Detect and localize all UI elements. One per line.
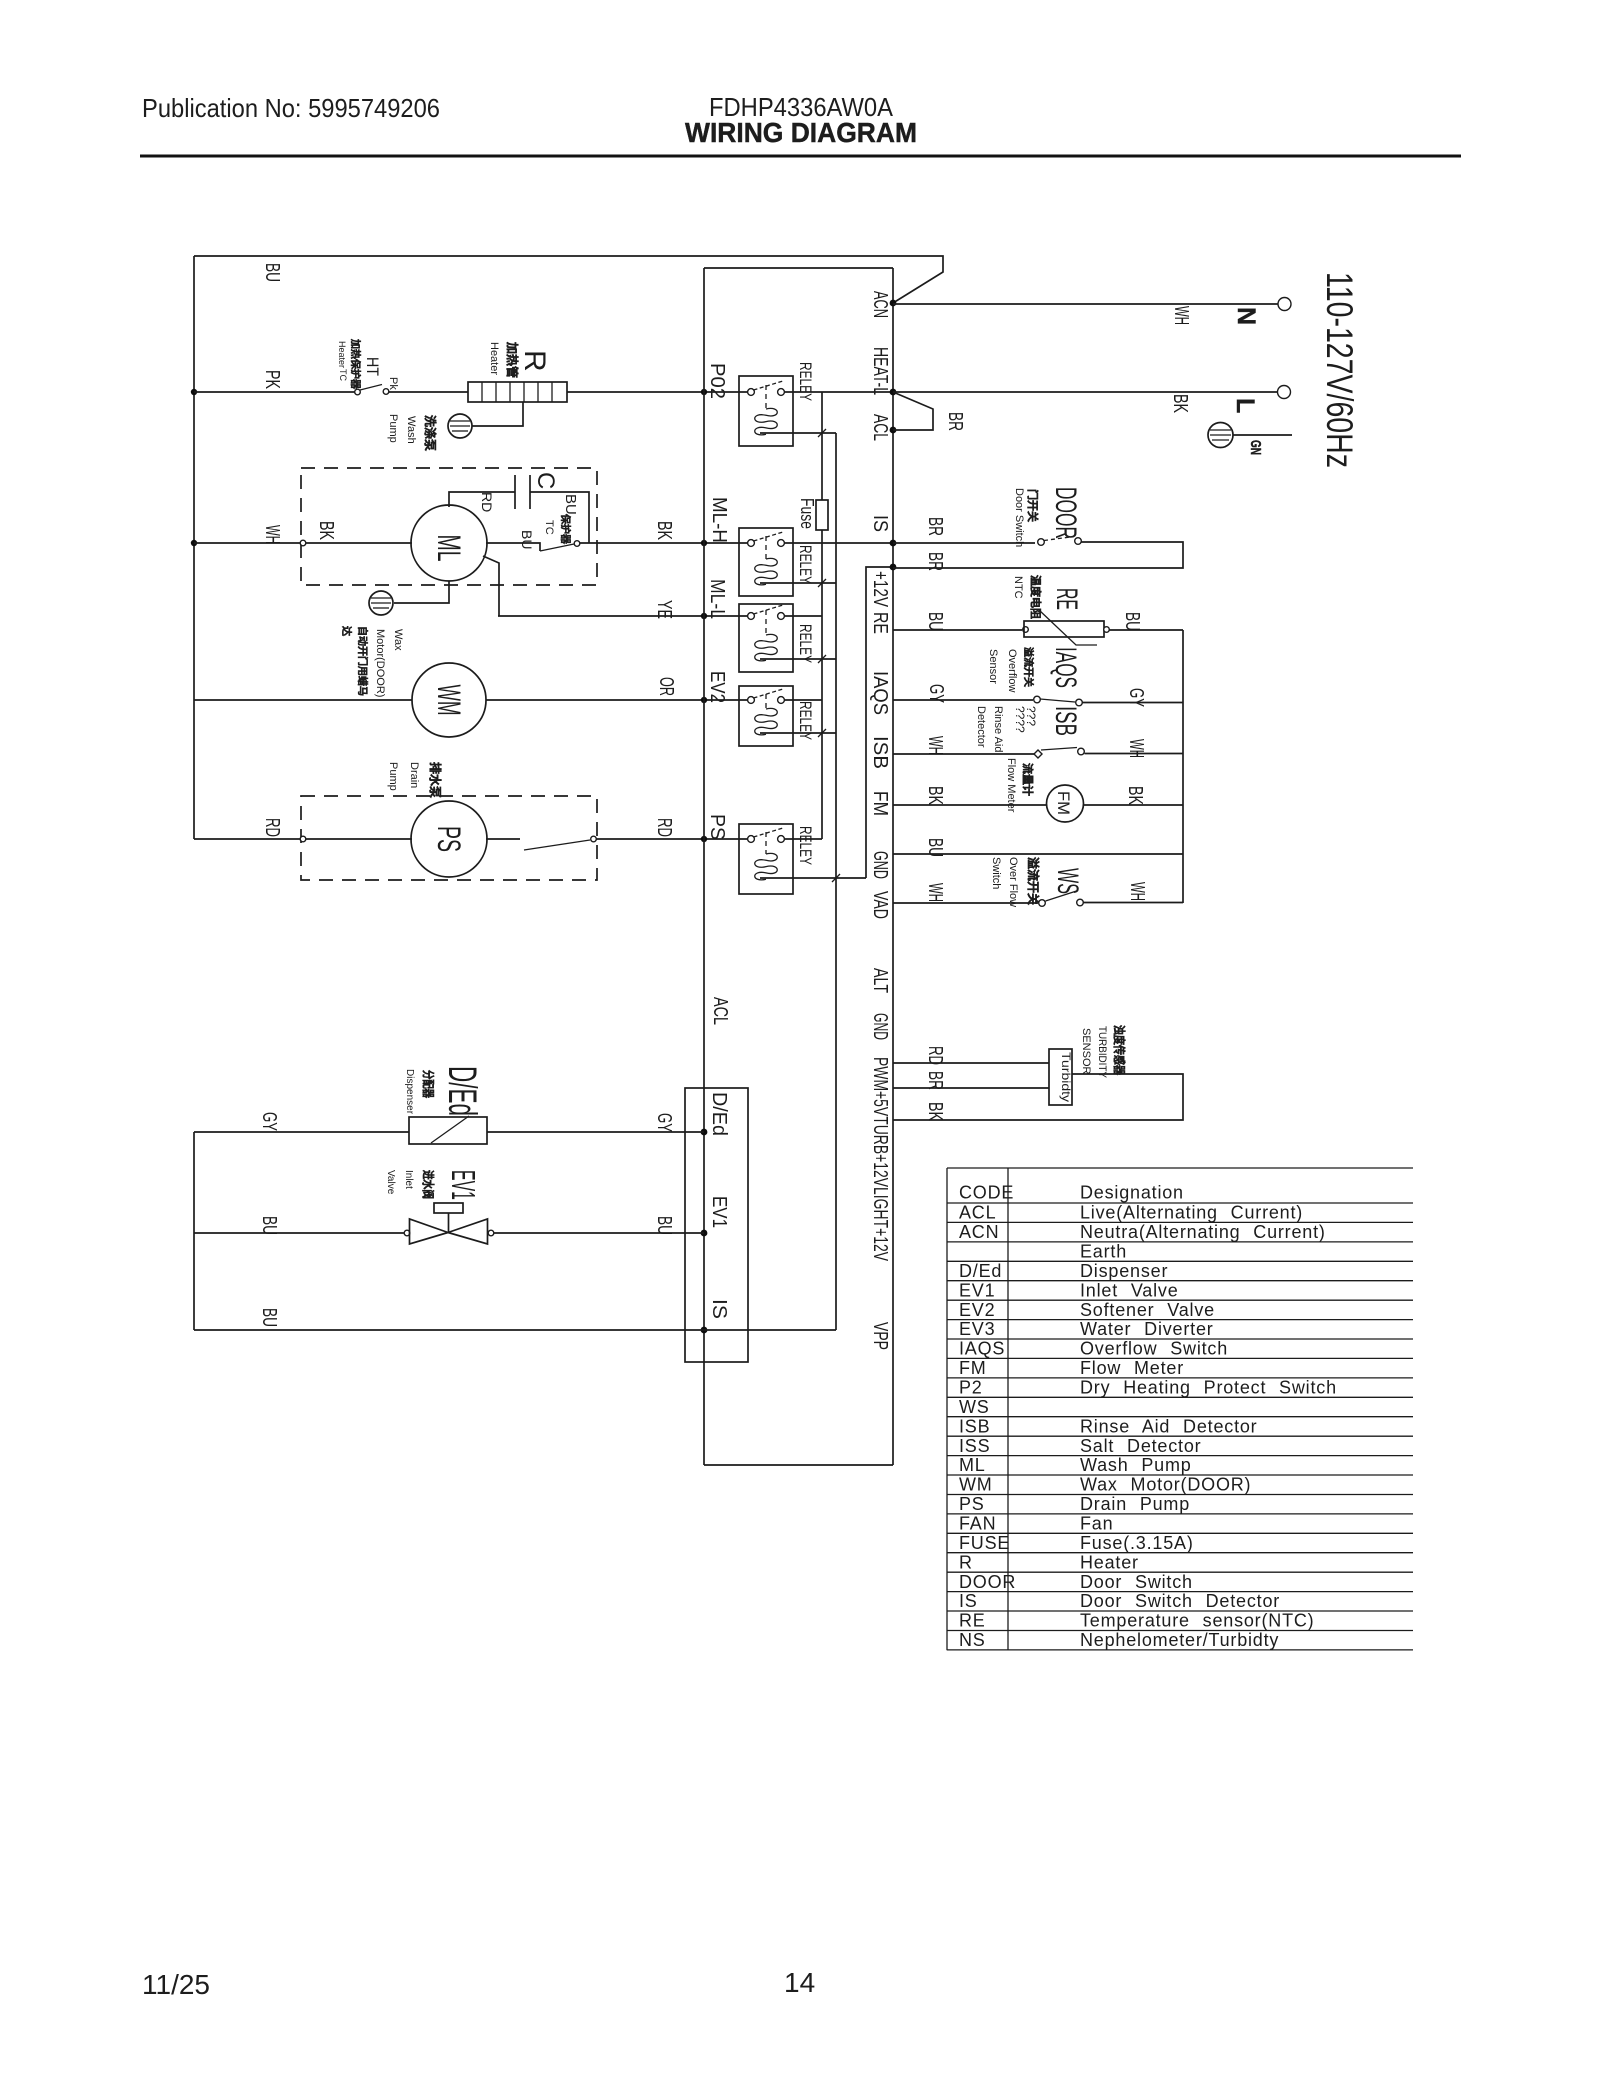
wire WS left xyxy=(893,902,1038,904)
svg-text:ML-L: ML-L xyxy=(706,579,728,619)
svg-text:L: L xyxy=(1231,398,1259,413)
wire IS bottom xyxy=(194,1329,836,1331)
svg-text:P02: P02 xyxy=(706,363,728,399)
svg-text:GND: GND xyxy=(869,1013,891,1040)
svg-text:RELEY: RELEY xyxy=(796,362,815,401)
node PS box entry xyxy=(300,836,306,842)
header rule xyxy=(140,155,1461,158)
valve EV1 xyxy=(404,1230,410,1236)
svg-text:WH: WH xyxy=(1126,882,1148,901)
svg-text:WH: WH xyxy=(1125,739,1147,758)
connector main line xyxy=(892,268,894,1465)
svg-text:BR: BR xyxy=(924,1071,946,1090)
svg-text:Door Switch Detector: Door Switch Detector xyxy=(1080,1591,1280,1611)
node P02 xyxy=(701,389,707,395)
svg-text:BU: BU xyxy=(519,530,535,549)
svg-text:Designation: Designation xyxy=(1080,1183,1184,1203)
svg-text:进水阀: 进水阀 xyxy=(421,1170,436,1199)
svg-text:ISS: ISS xyxy=(959,1436,990,1456)
svg-text:Drain: Drain xyxy=(408,762,420,788)
svg-text:BK: BK xyxy=(1169,394,1191,413)
svg-text:Heater: Heater xyxy=(337,341,347,368)
svg-text:Dispenser: Dispenser xyxy=(404,1069,415,1115)
capacitor C riser xyxy=(449,492,515,507)
node D/Ed xyxy=(701,1129,708,1136)
svg-text:GND: GND xyxy=(869,851,891,879)
svg-text:D/Ed: D/Ed xyxy=(959,1261,1002,1281)
wire YE ML-L xyxy=(498,615,750,617)
svg-text:洗涤泵: 洗涤泵 xyxy=(423,415,438,451)
dispenser D/Ed xyxy=(409,1117,487,1144)
wire IAQS left xyxy=(893,699,1033,701)
svg-text:Heater: Heater xyxy=(1080,1552,1139,1572)
node BR2 xyxy=(890,564,897,571)
switch PS thermal xyxy=(486,838,520,840)
node ML box entry xyxy=(300,540,306,546)
svg-text:BK: BK xyxy=(315,521,337,540)
svg-text:SENSOR: SENSOR xyxy=(1080,1028,1092,1075)
node ML-L xyxy=(701,613,707,619)
svg-text:WIRING DIAGRAM: WIRING DIAGRAM xyxy=(685,117,917,148)
svg-text:EV2: EV2 xyxy=(959,1300,995,1320)
svg-text:GY: GY xyxy=(925,684,947,703)
svg-text:Pk: Pk xyxy=(387,377,399,390)
svg-text:Drain Pump: Drain Pump xyxy=(1080,1494,1190,1514)
svg-text:RD: RD xyxy=(924,1046,946,1065)
svg-text:BU: BU xyxy=(924,838,946,857)
wire RD turbidity xyxy=(893,1062,1049,1064)
svg-text:ML: ML xyxy=(431,535,467,562)
svg-text:HEAT-L: HEAT-L xyxy=(869,347,891,395)
svg-text:Pump: Pump xyxy=(387,762,399,791)
svg-text:TC: TC xyxy=(338,369,348,381)
fuse F1 xyxy=(816,500,828,530)
svg-text:BK: BK xyxy=(924,1102,946,1121)
svg-text:BR: BR xyxy=(924,552,946,571)
svg-text:FAN: FAN xyxy=(959,1514,996,1534)
wire PK xyxy=(194,391,355,393)
wire RE left xyxy=(893,629,1022,631)
svg-text:+12V: +12V xyxy=(869,571,891,608)
svg-text:Valve: Valve xyxy=(385,1170,396,1195)
svg-text:Wax: Wax xyxy=(392,629,404,651)
svg-text:YE: YE xyxy=(653,600,675,619)
svg-text:RD: RD xyxy=(653,818,675,837)
svg-text:门开关: 门开关 xyxy=(1026,489,1040,522)
svg-text:Live(Alternating Current): Live(Alternating Current) xyxy=(1080,1203,1303,1223)
svg-text:NS: NS xyxy=(959,1630,986,1650)
switch WS xyxy=(1039,900,1046,907)
svg-text:TC: TC xyxy=(543,520,555,535)
svg-text:Turbidty: Turbidty xyxy=(1059,1052,1073,1102)
svg-text:RD: RD xyxy=(261,818,283,837)
node IS2 xyxy=(701,1327,708,1334)
svg-text:Over Flow: Over Flow xyxy=(1007,857,1019,907)
table CODE/Designation xyxy=(947,1168,1413,1650)
svg-text:RE: RE xyxy=(1050,588,1083,610)
svg-text:达: 达 xyxy=(340,626,353,636)
svg-text:D/Ed: D/Ed xyxy=(708,1092,730,1136)
svg-text:Heater: Heater xyxy=(488,342,500,375)
svg-text:Rinse Aid: Rinse Aid xyxy=(992,706,1004,752)
board outline xyxy=(704,268,893,1465)
svg-text:VPP: VPP xyxy=(869,1322,891,1350)
turbidity sensor box xyxy=(1049,1049,1072,1105)
svg-text:EV1: EV1 xyxy=(959,1280,995,1300)
wire relay3 out xyxy=(784,615,822,617)
node PK-left xyxy=(191,389,197,395)
switch TC in ML box xyxy=(486,543,540,551)
resistor R heater xyxy=(468,382,567,402)
relay K5 xyxy=(739,824,793,894)
svg-text:加热保护器: 加热保护器 xyxy=(349,338,362,390)
svg-text:Fan: Fan xyxy=(1080,1514,1113,1534)
svg-text:TURBIDITY: TURBIDITY xyxy=(1096,1026,1108,1079)
svg-text:WH: WH xyxy=(1170,306,1192,325)
wire BR turbidity xyxy=(893,1087,1049,1089)
svg-text:Inlet: Inlet xyxy=(403,1170,414,1189)
svg-text:PS: PS xyxy=(431,826,467,852)
svg-text:BK: BK xyxy=(924,786,946,805)
svg-text:RE: RE xyxy=(959,1611,986,1631)
node HEAT-L xyxy=(890,389,897,396)
svg-text:CODE: CODE xyxy=(959,1183,1014,1203)
connector D/Ed box xyxy=(685,1088,748,1362)
svg-text:FM: FM xyxy=(1054,791,1073,815)
terminal N xyxy=(1278,298,1291,311)
svg-text:IAQS: IAQS xyxy=(1049,647,1082,688)
svg-text:R: R xyxy=(959,1552,973,1572)
wire GY dispenser xyxy=(194,1131,409,1133)
svg-text:RE: RE xyxy=(869,612,891,634)
wire relay2 out xyxy=(784,542,893,544)
node ACL xyxy=(890,427,897,434)
wire coil K1 xyxy=(760,432,836,434)
dashed box ML xyxy=(301,468,597,585)
svg-text:GY: GY xyxy=(258,1112,280,1131)
svg-text:Salt Detector: Salt Detector xyxy=(1080,1436,1201,1456)
wire BR jog xyxy=(893,392,933,430)
svg-text:ISB: ISB xyxy=(959,1416,990,1436)
svg-text:BK: BK xyxy=(653,521,675,540)
svg-text:BU: BU xyxy=(653,1216,675,1235)
svg-text:VAD: VAD xyxy=(869,891,891,919)
svg-text:Temperature sensor(NTC): Temperature sensor(NTC) xyxy=(1080,1611,1314,1631)
flow meter FM xyxy=(1047,785,1084,822)
node EV1 xyxy=(701,1230,708,1237)
svg-text:BR: BR xyxy=(924,517,946,536)
terminal L xyxy=(1278,386,1291,399)
svg-text:FUSE: FUSE xyxy=(959,1533,1010,1553)
wire heater tap to ground xyxy=(472,402,523,426)
wire BU EV1 xyxy=(194,1232,407,1234)
svg-text:DOOR: DOOR xyxy=(959,1572,1016,1592)
svg-text:WS: WS xyxy=(1051,868,1084,894)
svg-text:EV2: EV2 xyxy=(706,671,728,703)
node ACN xyxy=(890,300,897,307)
svg-text:R: R xyxy=(518,350,551,372)
svg-text:EV1: EV1 xyxy=(445,1170,482,1200)
svg-text:BU: BU xyxy=(562,494,579,515)
svg-text:14: 14 xyxy=(784,1967,815,1998)
svg-text:BU: BU xyxy=(261,263,283,282)
ground ML motor xyxy=(394,581,449,603)
svg-text:Overflow Switch: Overflow Switch xyxy=(1080,1339,1228,1359)
svg-text:PS: PS xyxy=(959,1494,985,1514)
svg-text:Pump: Pump xyxy=(387,414,399,443)
node ML-H xyxy=(701,540,707,546)
switch HT xyxy=(355,389,361,395)
svg-text:Rinse Aid Detector: Rinse Aid Detector xyxy=(1080,1416,1257,1436)
svg-text:ACL: ACL xyxy=(869,414,891,441)
motor ML xyxy=(411,505,487,581)
svg-text:ACL: ACL xyxy=(959,1203,996,1223)
svg-text:Flow Meter: Flow Meter xyxy=(1080,1358,1184,1378)
svg-text:BU: BU xyxy=(1121,612,1143,631)
svg-text:IS: IS xyxy=(959,1591,978,1611)
svg-text:D/Ed: D/Ed xyxy=(440,1066,484,1116)
node PS pin xyxy=(701,836,707,842)
svg-text:RELEY: RELEY xyxy=(796,624,815,663)
wire BR1 door xyxy=(893,542,1035,544)
svg-text:Sensor: Sensor xyxy=(987,649,999,684)
svg-text:Flow Meter: Flow Meter xyxy=(1005,758,1017,813)
svg-text:FM: FM xyxy=(869,791,891,816)
svg-text:PS: PS xyxy=(706,814,728,840)
node WH-left xyxy=(191,540,197,546)
svg-text:P2: P2 xyxy=(959,1378,983,1398)
svg-text:Neutra(Alternating Current): Neutra(Alternating Current) xyxy=(1080,1222,1326,1242)
svg-text:Dispenser: Dispenser xyxy=(1080,1261,1168,1281)
svg-text:WH: WH xyxy=(924,883,946,902)
svg-text:HT: HT xyxy=(363,357,382,376)
wire BK turbidity xyxy=(893,1074,1183,1120)
svg-text:ACL: ACL xyxy=(709,997,731,1025)
svg-text:EV1: EV1 xyxy=(708,1196,730,1228)
svg-text:ACN: ACN xyxy=(869,291,891,318)
wire coil K4 xyxy=(760,732,836,734)
svg-text:Wash: Wash xyxy=(405,416,417,444)
svg-text:保护器: 保护器 xyxy=(559,513,572,545)
svg-text:ML-H: ML-H xyxy=(708,497,730,543)
svg-text:110-127V/60Hz: 110-127V/60Hz xyxy=(1319,272,1360,468)
wire BU top loop xyxy=(194,256,943,303)
relay K1 xyxy=(739,376,793,446)
wire left border lower xyxy=(193,1132,195,1330)
motor WM xyxy=(412,663,486,737)
sensor block boundary xyxy=(866,567,893,878)
svg-text:Nephelometer/Turbidty: Nephelometer/Turbidty xyxy=(1080,1630,1279,1650)
wire FM left xyxy=(893,804,1046,806)
svg-text:IS: IS xyxy=(708,1299,730,1319)
wire WH to ML box xyxy=(194,542,300,544)
svg-text:GY: GY xyxy=(1125,688,1147,707)
wire coil K2 xyxy=(760,582,836,584)
wire coil K3 xyxy=(760,658,836,660)
svg-text:WS: WS xyxy=(959,1397,990,1417)
svg-text:ACN: ACN xyxy=(959,1222,999,1242)
svg-text:排水泵: 排水泵 xyxy=(428,762,443,798)
motor PS xyxy=(411,801,487,877)
svg-text:Publication No: 5995749206: Publication No: 5995749206 xyxy=(142,93,440,123)
svg-text:Inlet Valve: Inlet Valve xyxy=(1080,1280,1179,1300)
svg-text:Door Switch: Door Switch xyxy=(1013,488,1025,547)
svg-text:Softener Valve: Softener Valve xyxy=(1080,1300,1215,1320)
wire to ML motor xyxy=(306,542,412,544)
wire relay5 out xyxy=(784,838,822,840)
svg-text:Door Switch: Door Switch xyxy=(1080,1572,1193,1592)
switch IAQS xyxy=(1034,696,1041,703)
svg-text:C: C xyxy=(532,472,559,489)
ground wash pump xyxy=(448,414,472,438)
wire WM row xyxy=(194,699,412,701)
svg-text:Earth: Earth xyxy=(1080,1242,1127,1262)
svg-text:加热管: 加热管 xyxy=(505,341,520,378)
svg-text:BU: BU xyxy=(924,612,946,631)
svg-text:溢流开关: 溢流开关 xyxy=(1022,647,1035,687)
svg-text:Switch: Switch xyxy=(990,857,1002,889)
dashed box PS xyxy=(301,796,597,880)
svg-text:Dry Heating Protect Switch: Dry Heating Protect Switch xyxy=(1080,1378,1337,1398)
thermistor RE xyxy=(1023,627,1029,633)
svg-text:ISB: ISB xyxy=(1049,706,1082,736)
svg-text:PK: PK xyxy=(261,370,283,389)
svg-text:DOOR: DOOR xyxy=(1049,487,1082,539)
svg-text:Motor(DOOR): Motor(DOOR) xyxy=(374,629,386,697)
svg-text:Detector: Detector xyxy=(975,706,987,748)
wire heater to P02 xyxy=(567,391,750,393)
wire relay4 out xyxy=(784,699,822,701)
svg-text:BU: BU xyxy=(258,1216,280,1235)
svg-text:流量计: 流量计 xyxy=(1021,763,1035,796)
svg-text:Wash Pump: Wash Pump xyxy=(1080,1455,1192,1475)
svg-text:溢流开关: 溢流开关 xyxy=(1026,857,1041,905)
switch ISB xyxy=(1034,750,1042,758)
svg-text:ISB: ISB xyxy=(869,736,891,769)
wire ISB left xyxy=(893,753,1034,755)
svg-text:WH: WH xyxy=(261,525,283,544)
wire BU plain xyxy=(893,853,1183,855)
svg-text:11/25: 11/25 xyxy=(142,1969,210,2000)
svg-text:RELEY: RELEY xyxy=(796,545,815,584)
relay K3 xyxy=(739,604,793,672)
table frame xyxy=(947,1168,1008,1650)
svg-text:BR: BR xyxy=(944,412,966,431)
svg-text:????: ???? xyxy=(1013,706,1027,733)
bus A lower xyxy=(821,530,823,839)
node EV2 xyxy=(701,697,707,703)
relay K4 xyxy=(739,686,793,746)
switch DOOR xyxy=(1038,539,1045,546)
wire relay1 out xyxy=(784,391,893,393)
svg-text:ML: ML xyxy=(959,1455,986,1475)
svg-text:Fuse(.3.15A): Fuse(.3.15A) xyxy=(1080,1533,1194,1553)
svg-text:浊度传感器: 浊度传感器 xyxy=(1112,1025,1127,1076)
wire BK to L xyxy=(893,391,1277,393)
svg-text:RD: RD xyxy=(479,492,495,512)
svg-text:RELEY: RELEY xyxy=(796,826,815,865)
svg-text:PWM+5VTURB+12VLIGHT+12V: PWM+5VTURB+12VLIGHT+12V xyxy=(869,1057,891,1261)
wire left border upper xyxy=(193,256,195,839)
svg-text:ALT: ALT xyxy=(869,968,891,993)
junction ticks xyxy=(818,429,840,882)
svg-text:WH: WH xyxy=(924,736,946,755)
svg-text:WM: WM xyxy=(431,685,467,716)
svg-text:WM: WM xyxy=(959,1475,993,1495)
capacitor C xyxy=(514,475,516,509)
svg-text:N: N xyxy=(1232,307,1260,325)
svg-text:BU: BU xyxy=(258,1308,280,1327)
bus B coil/IS xyxy=(835,433,837,1330)
ground mains xyxy=(1208,423,1233,448)
wire HT to heater xyxy=(389,391,468,393)
svg-text:BK: BK xyxy=(1124,786,1146,805)
svg-text:IS: IS xyxy=(869,515,891,532)
wire RD row xyxy=(194,838,300,840)
svg-text:Overflow: Overflow xyxy=(1006,649,1018,692)
wire coil K5 GND xyxy=(760,877,866,879)
wire ML to YE xyxy=(483,556,499,616)
node IS xyxy=(890,540,897,547)
relay K2 xyxy=(739,528,793,596)
svg-text:Water Diverter: Water Diverter xyxy=(1080,1319,1214,1339)
svg-text:GY: GY xyxy=(653,1113,675,1132)
svg-text:NTC: NTC xyxy=(1012,576,1024,599)
svg-text:RELEY: RELEY xyxy=(796,701,815,740)
svg-text:自动开门用蜡马: 自动开门用蜡马 xyxy=(356,626,369,696)
sensor right bus xyxy=(1182,630,1184,903)
svg-text:Wax Motor(DOOR): Wax Motor(DOOR) xyxy=(1080,1475,1251,1495)
svg-text:EV3: EV3 xyxy=(959,1319,995,1339)
svg-text:温度电阻: 温度电阻 xyxy=(1029,575,1043,619)
svg-text:OR: OR xyxy=(655,677,677,696)
svg-text:FM: FM xyxy=(959,1358,987,1378)
svg-text:分配器: 分配器 xyxy=(421,1070,436,1099)
bus A upper xyxy=(821,392,823,500)
svg-text:IAQS: IAQS xyxy=(959,1339,1005,1359)
wire WH to N xyxy=(893,303,1278,305)
svg-text:IAQS: IAQS xyxy=(869,671,891,715)
svg-text:Fuse: Fuse xyxy=(797,498,817,529)
svg-text:GN: GN xyxy=(1247,440,1264,455)
